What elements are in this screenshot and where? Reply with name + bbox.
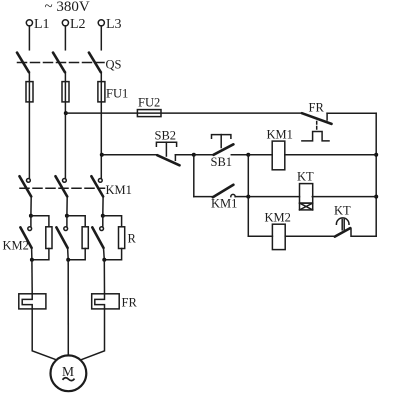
svg-text:M: M (62, 364, 74, 379)
svg-text:SB1: SB1 (211, 155, 233, 169)
svg-text:KM1: KM1 (211, 197, 237, 211)
svg-text:QS: QS (106, 58, 122, 72)
svg-text:~ 380V: ~ 380V (45, 0, 90, 15)
svg-text:L2: L2 (70, 17, 86, 32)
svg-text:L3: L3 (106, 17, 122, 32)
svg-text:KM1: KM1 (106, 183, 132, 197)
svg-text:KT: KT (334, 204, 351, 218)
svg-text:KM2: KM2 (3, 239, 29, 253)
svg-text:FU1: FU1 (106, 87, 128, 101)
svg-text:KM1: KM1 (267, 128, 293, 142)
svg-text:FR: FR (309, 101, 325, 115)
svg-text:SB2: SB2 (155, 129, 177, 143)
svg-text:FU2: FU2 (138, 96, 160, 110)
svg-text:R: R (128, 232, 137, 246)
svg-text:FR: FR (122, 296, 138, 310)
svg-text:KT: KT (297, 170, 314, 184)
svg-text:KM2: KM2 (265, 211, 291, 225)
svg-text:L1: L1 (34, 17, 50, 32)
